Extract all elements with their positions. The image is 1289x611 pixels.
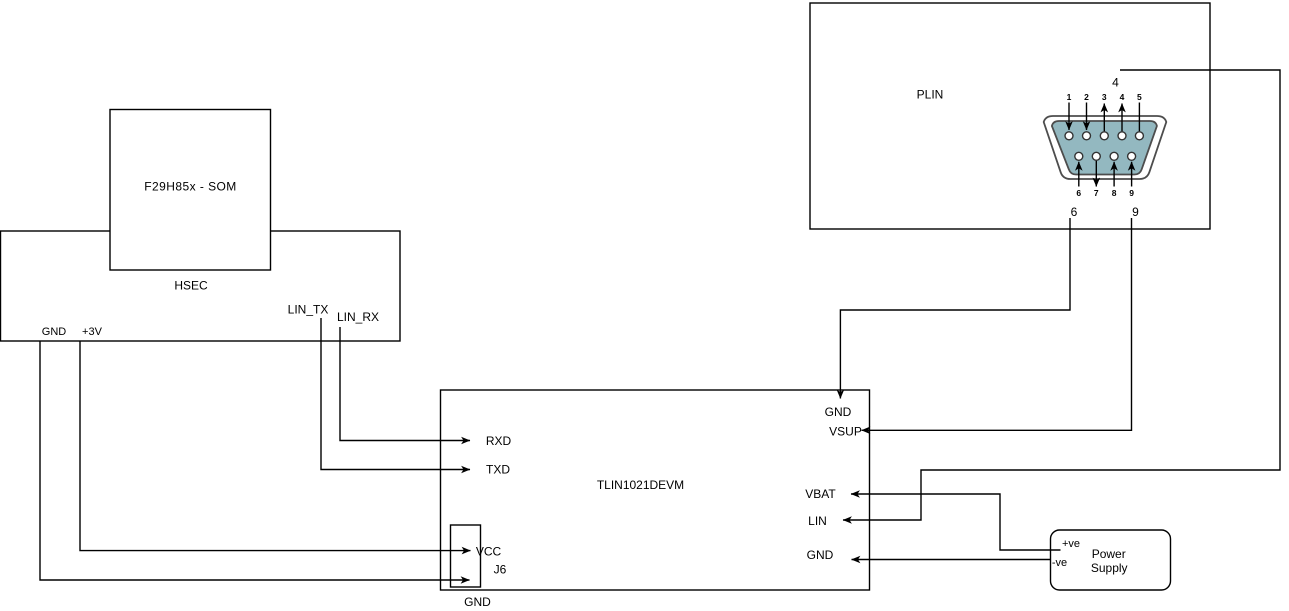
- svg-text:LIN_TX: LIN_TX: [288, 303, 329, 317]
- TLIN1021DEVM box: [441, 390, 870, 590]
- svg-text:GND: GND: [42, 326, 67, 338]
- svg-text:VCC: VCC: [476, 545, 502, 559]
- svg-text:LIN: LIN: [808, 514, 827, 528]
- DB9 pin 4 hole: [1118, 132, 1126, 140]
- PLIN box: [810, 3, 1210, 229]
- DB9 pin 3 lead: [1103, 104, 1105, 132]
- DB9 pin 9 lead: [1131, 162, 1133, 187]
- svg-text:4: 4: [1112, 76, 1119, 90]
- wire DB9 pin6 to TLIN GND: [840, 218, 1070, 399]
- DB9 pin 2 lead: [1086, 103, 1088, 131]
- svg-text:GND: GND: [464, 595, 491, 609]
- wire GND from HSEC to J6: [40, 341, 470, 580]
- Power Supply box: [1051, 530, 1171, 590]
- DB9 connector outer shell: [1044, 116, 1167, 179]
- svg-text:Power: Power: [1092, 547, 1126, 561]
- svg-text:PLIN: PLIN: [917, 88, 944, 102]
- DB9 pin 4 lead: [1121, 104, 1123, 132]
- svg-text:8: 8: [1112, 188, 1117, 198]
- svg-text:J6: J6: [494, 563, 507, 577]
- svg-text:TLIN1021DEVM: TLIN1021DEVM: [597, 478, 684, 492]
- DB9 pin 7 hole: [1092, 152, 1100, 160]
- J6 connector box: [451, 525, 481, 587]
- svg-text:3: 3: [1102, 92, 1107, 102]
- svg-text:5: 5: [1137, 92, 1142, 102]
- DB9 pin 8 lead: [1113, 162, 1115, 187]
- svg-text:GND: GND: [825, 405, 852, 419]
- wire LIN_TX to TXD: [321, 318, 470, 470]
- wire LIN_RX to RXD: [340, 327, 470, 441]
- svg-text:F29H85x - SOM: F29H85x - SOM: [144, 180, 237, 194]
- DB9 pin 9 hole: [1128, 152, 1136, 160]
- svg-text:GND: GND: [807, 548, 834, 562]
- DB9 pin 2 hole: [1083, 132, 1091, 140]
- DB9 pin 5 hole: [1135, 132, 1143, 140]
- svg-text:-ve: -ve: [1052, 557, 1067, 569]
- svg-text:6: 6: [1071, 205, 1078, 219]
- svg-text:6: 6: [1076, 188, 1081, 198]
- DB9 pin 1 hole: [1065, 132, 1073, 140]
- svg-text:9: 9: [1129, 188, 1134, 198]
- svg-text:LIN_RX: LIN_RX: [337, 310, 379, 324]
- svg-text:TXD: TXD: [486, 463, 510, 477]
- svg-text:RXD: RXD: [486, 434, 512, 448]
- svg-text:7: 7: [1094, 188, 1099, 198]
- svg-text:VBAT: VBAT: [805, 487, 836, 501]
- wire Power Supply +ve to VBAT: [851, 494, 1061, 550]
- svg-text:9: 9: [1132, 205, 1139, 219]
- svg-text:4: 4: [1120, 92, 1125, 102]
- DB9 pin 6 lead: [1078, 162, 1080, 187]
- DB9 pin 1 lead: [1068, 103, 1070, 131]
- svg-text:2: 2: [1084, 92, 1089, 102]
- F29H85x - SOM box: [110, 110, 271, 271]
- DB9 pin 7 lead: [1095, 161, 1097, 187]
- DB9 connector inner face: [1052, 121, 1157, 175]
- svg-text:Supply: Supply: [1091, 561, 1128, 575]
- svg-text:1: 1: [1067, 92, 1072, 102]
- DB9 pin 8 hole: [1110, 152, 1118, 160]
- wire +3V from HSEC to VCC: [80, 341, 471, 551]
- DB9 pin 6 hole: [1075, 152, 1083, 160]
- wire node4 to LIN: [843, 70, 1280, 520]
- wire DB9 pin9 to VSUP: [862, 218, 1132, 430]
- svg-text:HSEC: HSEC: [174, 279, 208, 293]
- svg-text:+ve: +ve: [1062, 538, 1080, 550]
- svg-text:VSUP: VSUP: [829, 425, 862, 439]
- DB9 pin 3 hole: [1100, 132, 1108, 140]
- HSEC board box: [1, 231, 401, 341]
- DB9 pin 5 lead: [1138, 103, 1140, 132]
- svg-text:+3V: +3V: [82, 326, 103, 338]
- wire Power Supply -ve to GND: [852, 559, 1052, 561]
